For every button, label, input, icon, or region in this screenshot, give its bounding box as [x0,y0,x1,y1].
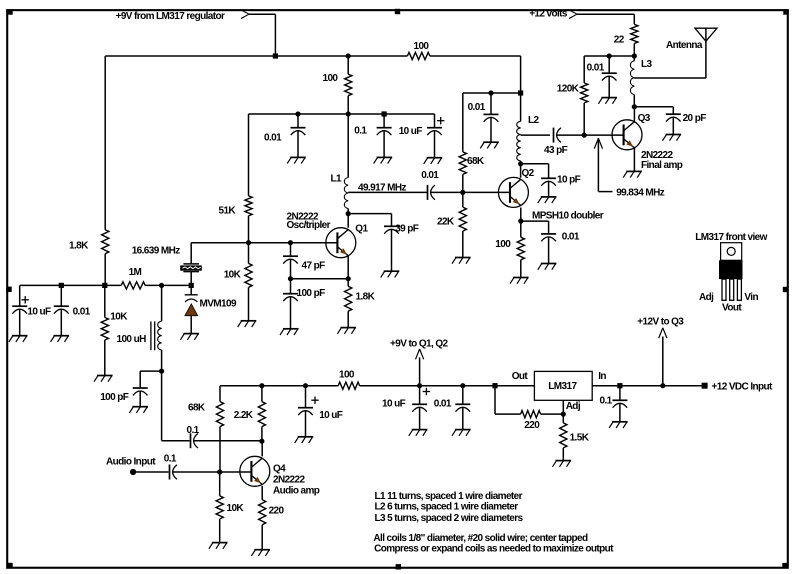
svg-text:1.8K: 1.8K [356,292,376,303]
svg-text:In: In [598,371,606,382]
svg-text:220: 220 [524,420,540,431]
svg-text:L1 11 turns, spaced 1 wire dia: L1 11 turns, spaced 1 wire diameter [375,491,523,502]
svg-text:120K: 120K [557,84,580,95]
svg-text:43 pF: 43 pF [544,145,568,156]
svg-text:L3: L3 [641,59,653,70]
svg-text:All coils 1/8" diameter, #20 s: All coils 1/8" diameter, #20 solid wire;… [373,533,588,544]
svg-text:Q3: Q3 [638,113,651,124]
svg-text:49.917 MHz: 49.917 MHz [358,182,407,193]
svg-text:Audio amp: Audio amp [273,485,320,496]
svg-text:1.5K: 1.5K [570,432,590,443]
svg-text:Compress or expand coils as ne: Compress or expand coils as needed to ma… [374,543,614,554]
svg-text:Adj: Adj [566,401,581,412]
svg-text:22K: 22K [437,217,455,228]
svg-text:0.1: 0.1 [187,425,200,436]
svg-text:0.01: 0.01 [587,62,605,73]
svg-text:10 uF: 10 uF [319,410,343,421]
svg-text:20 pF: 20 pF [683,113,707,124]
svg-text:10K: 10K [110,312,128,323]
svg-text:100: 100 [414,41,430,52]
svg-text:+12V to Q3: +12V to Q3 [637,317,684,328]
svg-text:100 pF: 100 pF [100,392,129,403]
svg-text:Antenna: Antenna [666,40,703,51]
svg-text:1.8K: 1.8K [69,240,89,251]
svg-text:0.01: 0.01 [73,307,91,318]
svg-text:0.01: 0.01 [264,132,282,143]
svg-text:10 uF: 10 uF [399,126,423,137]
svg-text:10 pF: 10 pF [557,174,581,185]
svg-text:0.01: 0.01 [421,170,439,181]
svg-text:0.1: 0.1 [600,395,613,406]
svg-text:2.2K: 2.2K [234,410,254,421]
svg-text:68K: 68K [188,402,206,413]
svg-text:+9V from LM317 regulator: +9V from LM317 regulator [116,11,225,22]
svg-text:10K: 10K [227,503,245,514]
svg-text:0.01: 0.01 [434,399,452,410]
svg-text:Out: Out [512,371,529,382]
svg-text:MPSH10 doubler: MPSH10 doubler [532,210,604,221]
svg-text:Vout: Vout [722,303,742,314]
svg-text:+12 volts: +12 volts [529,8,568,19]
svg-text:0.01: 0.01 [562,232,580,243]
svg-text:0.01: 0.01 [468,102,486,113]
svg-text:Q1: Q1 [355,223,368,234]
svg-text:2N2222: 2N2222 [273,474,305,485]
svg-text:51K: 51K [219,205,237,216]
svg-text:16.639 MHz: 16.639 MHz [132,245,181,256]
svg-text:Adj: Adj [699,292,714,303]
svg-text:Q4: Q4 [273,463,286,474]
svg-text:Osc/tripler: Osc/tripler [287,220,331,231]
svg-text:Final amp: Final amp [641,160,683,171]
svg-text:LM317 front view: LM317 front view [695,232,767,243]
svg-text:100 pF: 100 pF [297,288,326,299]
svg-text:LM317: LM317 [548,381,577,392]
svg-text:10 uF: 10 uF [382,399,406,410]
svg-text:100: 100 [495,239,511,250]
svg-text:L3 5 turns, spaced 2 wire diam: L3 5 turns, spaced 2 wire diameters [375,513,524,524]
svg-text:Vin: Vin [744,292,758,303]
svg-text:0.1: 0.1 [354,125,367,136]
svg-text:100 uH: 100 uH [117,334,147,345]
svg-text:100: 100 [323,73,339,84]
svg-text:99.834 MHz: 99.834 MHz [616,187,665,198]
svg-text:10 uF: 10 uF [27,307,51,318]
svg-text:22: 22 [614,34,625,45]
svg-text:1M: 1M [129,267,142,278]
svg-text:220: 220 [269,506,285,517]
svg-text:Q2: Q2 [522,168,535,179]
svg-text:L2: L2 [528,115,540,126]
svg-text:10K: 10K [224,269,242,280]
svg-text:100: 100 [339,370,355,381]
svg-text:39 pF: 39 pF [395,223,419,234]
svg-text:Audio Input: Audio Input [106,456,156,467]
svg-text:0.1: 0.1 [164,453,177,464]
svg-text:+12 VDC Input: +12 VDC Input [712,381,774,392]
svg-text:L2 6 turns, spaced 1 wire diam: L2 6 turns, spaced 1 wire diameter [375,502,519,513]
svg-text:68K: 68K [467,156,485,167]
svg-text:MVM109: MVM109 [200,298,237,309]
svg-text:+9V to Q1, Q2: +9V to Q1, Q2 [390,338,449,349]
svg-text:47 pF: 47 pF [302,260,326,271]
svg-text:L1: L1 [331,174,343,185]
